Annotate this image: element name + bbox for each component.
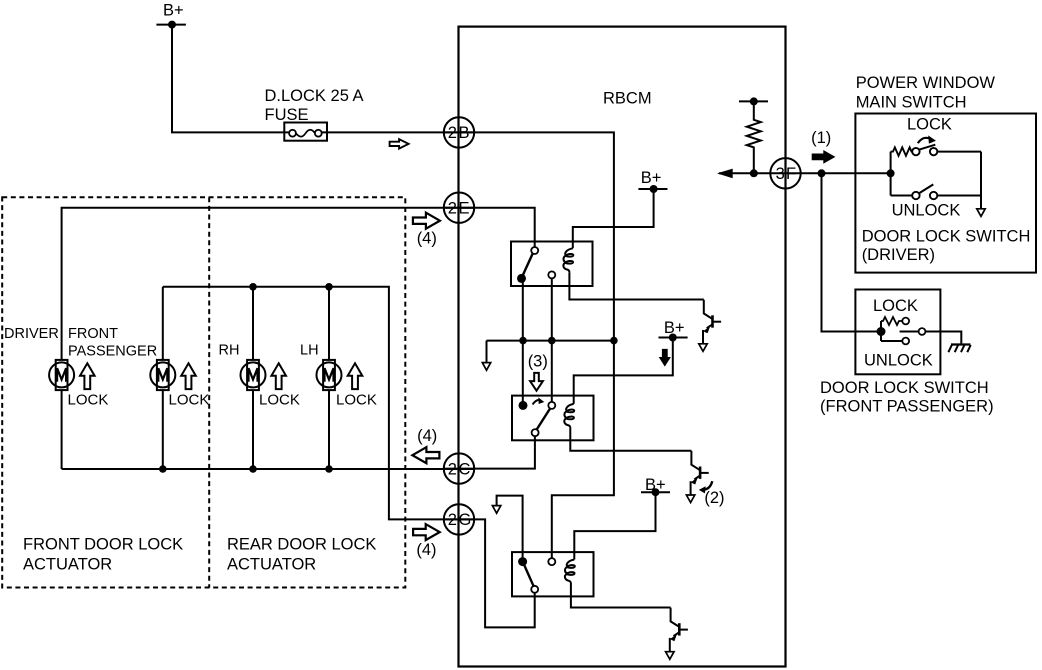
relay K3 common dot [518,557,527,566]
junction dot to FP switch [818,169,826,177]
lock contact right [930,148,937,155]
connector 3F [770,158,800,188]
relay K3 moving contact [531,586,538,593]
relay K3 box [512,552,594,596]
wire 3F row with left arrow [719,172,771,174]
svg-text:REAR DOOR LOCK: REAR DOOR LOCK [227,536,376,554]
main switch rail dot [887,169,895,177]
svg-text:(DRIVER): (DRIVER) [862,246,935,264]
svg-text:RH: RH [219,342,240,358]
junction dot C [610,337,618,345]
fp unlock contact [902,338,909,345]
wire 2B to internal bus down to relay 3 NO contact [444,132,614,558]
connector 2B [444,117,474,147]
relay K2 box [512,396,594,441]
wire K1 common to K2 common [522,281,524,402]
relay K1 common dot [517,274,526,283]
svg-text:(3): (3) [528,352,548,370]
lock arrow M4 [348,363,363,389]
lock arrow M3 [271,363,286,389]
hollow down arrow (3) [530,373,543,391]
wire 2E to driver motor [62,208,474,360]
relay K1 box [511,242,593,287]
relay K1 coil [563,248,573,272]
B+ junction dot [168,21,176,29]
relay K3 arm [524,565,533,586]
junction dot resistor/3F [750,169,758,177]
B+ dot lower [652,488,660,496]
unlock contact left [912,192,919,199]
svg-text:LOCK: LOCK [873,297,918,315]
motor wires M3 [252,287,254,469]
fp common vertical [880,321,882,341]
solid down arrow near B+ mid [659,349,671,367]
connector 2E [444,193,474,223]
svg-text:LH: LH [300,342,319,358]
relay K1 arm [523,254,533,276]
top bus dot RH [249,283,257,291]
wire down to FP switch [822,173,878,331]
wire B+ lower to K3 coil [574,492,655,559]
flow arrow (4) left near 2C [412,447,439,463]
unlock contact right [930,192,937,199]
svg-text:UNLOCK: UNLOCK [864,351,933,369]
motor wires M2 [162,287,164,469]
bottom bus to 2C [62,468,474,470]
svg-text:(1): (1) [811,129,831,147]
svg-text:2G: 2G [448,511,473,529]
right rail [980,152,982,209]
top bus for passenger/RH/LH motors from 2G [163,287,474,520]
svg-text:LOCK: LOCK [169,392,210,409]
svg-text:2C: 2C [448,460,472,478]
motor M4 LH [317,360,342,390]
relay K3 coil [565,560,575,584]
solid right arrow (1) [812,150,836,164]
fp lock contact [902,318,909,325]
continuation arrow K3 [492,506,500,514]
svg-text:FUSE: FUSE [265,106,309,124]
wire 2C to K2 moving contact [444,436,535,469]
svg-text:RBCM: RBCM [603,89,652,107]
motor wires M4 [328,287,330,469]
lock switch arm [919,145,935,150]
fp switch arm [900,331,919,333]
svg-text:DOOR LOCK SWITCH: DOOR LOCK SWITCH [820,379,989,397]
wire B+ mid to K2 coil [574,338,673,404]
flow arrow (4) near 2E [413,213,440,229]
svg-text:ACTUATOR: ACTUATOR [23,556,112,574]
svg-text:3F: 3F [776,165,798,183]
lock arrow M1 [80,363,95,389]
motor wires M1 [61,390,63,469]
svg-text:B+: B+ [163,1,184,19]
continuation arrow right rail [977,209,985,217]
unlock row wire left [891,195,913,197]
motor M1 driver [49,360,74,390]
connector 2G [444,504,474,534]
svg-text:(2): (2) [704,489,724,507]
main switch box [855,114,1036,273]
wire fp to ground [925,332,961,345]
lock contact left [912,148,919,155]
resistor R1 [747,101,761,173]
wire K1 NC to K2 NO [551,278,553,402]
wire K3 common to continuation [497,496,523,558]
B+ bar relay1 [638,188,667,190]
connector 2C [444,453,474,483]
FP switch box [855,290,940,375]
B+ bar lower [641,491,670,493]
fp common dot [877,327,886,336]
relay K2 NO contact [548,402,555,409]
motor M2 front passenger [150,360,175,390]
wire fuse to 2B [322,131,474,133]
bottom bus dot passenger [159,465,167,473]
B+ bar mid [659,337,688,339]
wire 2E to relay 1 contact [444,208,535,247]
svg-text:LOCK: LOCK [907,116,952,134]
fp lock resistor [881,317,902,325]
resistor R1 top dot [750,97,758,105]
RBCM box [459,27,786,667]
svg-text:DOOR LOCK SWITCH: DOOR LOCK SWITCH [862,228,1031,246]
wire K3 coil to Q3 [571,584,671,608]
B+ terminal bar [156,24,186,26]
fuse right terminal [315,130,322,137]
svg-text:ACTUATOR: ACTUATOR [227,556,316,574]
main switch left rail [890,152,892,196]
wire 2G to K3 moving contact [444,519,535,627]
wire B+ to fuse [172,25,289,133]
svg-text:LOCK: LOCK [259,392,300,409]
solid left arrowhead [717,169,733,179]
bottom bus dot RH [249,465,257,473]
svg-text:PASSENGER: PASSENGER [68,343,157,359]
curved arrow lock [918,138,929,143]
junction dot A [519,337,527,345]
relay K2 common dot [519,401,528,410]
wire unlock to right rail [937,195,981,197]
fp arm contact [919,328,926,335]
node junction line y=340 [487,340,614,342]
unlock switch arm [919,184,933,193]
transistor Q1 [699,300,721,352]
svg-text:(4): (4) [416,541,436,559]
svg-text:2E: 2E [448,200,471,218]
svg-text:UNLOCK: UNLOCK [892,202,961,220]
wire junction stub to continuation [486,341,488,363]
svg-text:2B: 2B [448,124,471,142]
fuse D.LOCK 25A body [284,123,327,141]
curved arrow (2) [703,481,712,490]
lock arrow M2 [181,363,196,389]
svg-text:FRONT: FRONT [68,326,118,342]
svg-text:FRONT DOOR LOCK: FRONT DOOR LOCK [23,536,183,554]
svg-text:POWER WINDOW: POWER WINDOW [856,74,996,92]
wire K2 coil to Q2 [570,428,691,451]
wire K1 coil to Q1 [569,272,703,299]
wire lock to right rail [937,151,981,153]
svg-text:DRIVER: DRIVER [4,326,59,342]
fuse left terminal [289,130,296,137]
transistor Q3 [666,608,688,660]
B+ dot mid [669,334,677,342]
relay K2 arm [537,409,550,430]
svg-text:LOCK: LOCK [336,392,377,409]
bottom bus dot LH [325,465,333,473]
svg-text:(4): (4) [417,427,437,445]
top bus dot LH [325,283,333,291]
relay K2 coil [564,404,574,428]
B+ dot relay1 [650,185,658,193]
continuation arrow [482,363,490,371]
relay K3 NO contact [548,558,555,565]
fuse wavy element [296,130,315,137]
fp unlock wire [881,340,902,342]
junction dot B [548,337,556,345]
transistor Q2 [686,451,708,503]
relay K1 NC contact [548,271,555,278]
ground [948,345,970,353]
svg-text:MAIN SWITCH: MAIN SWITCH [856,94,967,112]
svg-text:LOCK: LOCK [68,392,109,409]
dashed divider front/rear [208,197,210,587]
relay K2 moving contact [532,429,539,436]
svg-text:B+: B+ [641,169,662,187]
flow arrow (4) right near 2G [413,524,440,540]
wire 3F to main switch [771,172,891,174]
resistor R1 top bar [739,100,768,102]
lock resistor zigzag [891,147,913,155]
flow arrow (hollow right) near fuse [390,139,409,149]
dashed actuator outer box [2,197,405,587]
relay K1 NO contact [531,247,538,254]
svg-text:D.LOCK 25 A: D.LOCK 25 A [265,87,364,105]
wire B+ to K1 coil [573,189,654,248]
relay K2 curved arrow [533,400,540,405]
svg-text:(FRONT PASSENGER): (FRONT PASSENGER) [820,397,994,415]
motor M3 RH [241,360,266,390]
svg-text:(4): (4) [417,229,437,247]
